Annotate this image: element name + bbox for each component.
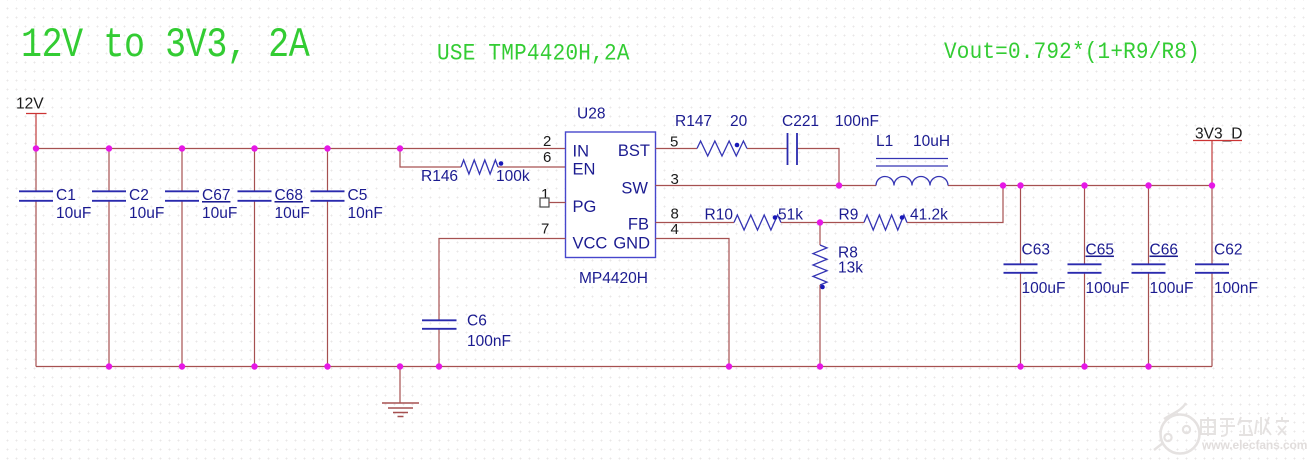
- wire C68 branch: [254, 149, 256, 367]
- svg-text:www.elecfans.com: www.elecfans.com: [1201, 438, 1307, 452]
- resistor R8: [813, 245, 863, 285]
- svg-text:8: 8: [671, 206, 679, 223]
- junction ground rail at GND pin: [726, 363, 732, 369]
- junction 12V rail at C1: [33, 145, 39, 151]
- svg-text:VCC: VCC: [573, 235, 608, 253]
- svg-text:SW: SW: [621, 180, 648, 198]
- note USE TMP4420H,2A: [437, 41, 630, 67]
- svg-text:R147: R147: [675, 113, 712, 130]
- junction 12V rail at EN branch: [397, 145, 403, 151]
- svg-text:USE TMP4420H,2A: USE TMP4420H,2A: [437, 41, 630, 67]
- wire C65 branch: [1084, 186, 1086, 367]
- capacitor C68: [238, 187, 310, 222]
- pin number 1: [541, 186, 549, 203]
- svg-text:MP4420H: MP4420H: [579, 270, 648, 287]
- note Vout formula: [944, 39, 1200, 65]
- junction 12V rail at C67: [179, 145, 185, 151]
- junction output rail at C63: [1017, 182, 1023, 188]
- wire C63 branch: [1020, 186, 1022, 367]
- resistor R9: [839, 207, 949, 231]
- svg-text:2: 2: [543, 133, 551, 150]
- svg-text:100nF: 100nF: [835, 113, 879, 130]
- IC U28 MP4420H: [566, 106, 656, 288]
- junction ground rail at C66: [1145, 363, 1151, 369]
- wire C62 branch: [1211, 186, 1213, 367]
- svg-text:R9: R9: [839, 207, 859, 224]
- resistor R10: [705, 207, 804, 231]
- svg-text:C63: C63: [1022, 242, 1050, 259]
- svg-text:7: 7: [541, 221, 549, 238]
- junction ground rail at C6: [436, 363, 442, 369]
- junction ground rail at C5: [324, 363, 330, 369]
- svg-text:R10: R10: [705, 207, 734, 224]
- capacitor C6: [422, 313, 511, 351]
- svg-text:R146: R146: [421, 168, 458, 185]
- resistor R147: [675, 113, 748, 156]
- pin number 5: [670, 134, 678, 151]
- svg-text:100uF: 100uF: [1022, 280, 1066, 297]
- wire VCC branch: [439, 239, 566, 367]
- junction output rail at 3V3_D: [1209, 182, 1215, 188]
- capacitor C5: [311, 187, 383, 222]
- pin number 2: [543, 133, 551, 150]
- svg-text:C65: C65: [1086, 242, 1114, 259]
- svg-text:C66: C66: [1150, 242, 1178, 259]
- svg-text:100nF: 100nF: [467, 333, 511, 350]
- svg-text:10uF: 10uF: [129, 205, 164, 222]
- junction SW at R9: [1000, 182, 1006, 188]
- svg-text:41.2k: 41.2k: [910, 207, 948, 224]
- capacitor C2: [92, 187, 164, 222]
- svg-text:C62: C62: [1214, 242, 1242, 259]
- wire C66 branch: [1148, 186, 1150, 367]
- svg-text:20: 20: [730, 113, 748, 130]
- junction ground rail at ground symbol: [397, 363, 403, 369]
- svg-text:Vout=0.792*(1+R9/R8): Vout=0.792*(1+R9/R8): [944, 39, 1200, 65]
- capacitor C66: [1132, 242, 1194, 298]
- svg-text:C5: C5: [348, 187, 368, 204]
- svg-text:100uF: 100uF: [1150, 280, 1194, 297]
- capacitor C65: [1068, 242, 1130, 298]
- pin number 6: [543, 149, 551, 166]
- junction ground rail at C2: [106, 363, 112, 369]
- wire input rail 12V: [36, 148, 566, 150]
- junction output rail at C65: [1081, 182, 1087, 188]
- svg-text:C68: C68: [275, 187, 303, 204]
- junction ground rail at C65: [1081, 363, 1087, 369]
- wire bottom ground rail: [36, 366, 1212, 368]
- solder dot R147: [735, 143, 740, 148]
- svg-text:L1: L1: [876, 133, 893, 150]
- junction FB divider node: [817, 219, 823, 225]
- ground symbol: [382, 367, 419, 417]
- wire C1 branch: [35, 149, 37, 367]
- wire C2 branch: [108, 149, 110, 367]
- svg-text:10uF: 10uF: [202, 205, 237, 222]
- svg-text:C6: C6: [467, 313, 487, 330]
- pin number 7: [541, 221, 549, 238]
- wire FB branch: [656, 186, 1004, 223]
- svg-text:IN: IN: [573, 143, 590, 161]
- svg-text:100k: 100k: [496, 168, 530, 185]
- svg-text:100uF: 100uF: [1086, 280, 1130, 297]
- solder dot R9: [900, 215, 905, 220]
- solder dot R146: [499, 161, 504, 166]
- capacitor C63: [1004, 242, 1066, 298]
- wire C67 branch: [181, 149, 183, 367]
- title text: [21, 21, 310, 69]
- port 3V3_D: [1193, 126, 1242, 186]
- wire R8 branch: [819, 223, 821, 367]
- junction 12V rail at C5: [324, 145, 330, 151]
- junction 12V rail at C68: [251, 145, 257, 151]
- svg-text:6: 6: [543, 149, 551, 166]
- svg-text:C1: C1: [56, 187, 76, 204]
- svg-text:51k: 51k: [778, 207, 803, 224]
- junction ground rail at R8: [817, 363, 823, 369]
- watermark hanzi: [1201, 417, 1289, 436]
- solder dot R8: [820, 285, 825, 290]
- capacitor C1: [19, 187, 91, 222]
- junction ground rail at C67: [179, 363, 185, 369]
- svg-text:GND: GND: [613, 235, 650, 253]
- capacitor C221: [782, 113, 879, 165]
- svg-text:10nF: 10nF: [348, 205, 383, 222]
- junction 12V rail at C2: [106, 145, 112, 151]
- wire C5 branch: [327, 149, 329, 367]
- svg-text:C2: C2: [129, 187, 149, 204]
- capacitor C62: [1195, 242, 1258, 298]
- svg-text:4: 4: [671, 221, 679, 238]
- svg-text:10uF: 10uF: [275, 205, 310, 222]
- junction ground rail at C68: [251, 363, 257, 369]
- svg-text:10uH: 10uH: [913, 133, 950, 150]
- svg-text:12V to 3V3, 2A: 12V to 3V3, 2A: [21, 21, 310, 69]
- svg-text:EN: EN: [573, 161, 596, 179]
- junction output rail at C66: [1145, 182, 1151, 188]
- inductor L1: [876, 133, 950, 186]
- svg-text:10uF: 10uF: [56, 205, 91, 222]
- wire EN branch: [400, 149, 566, 168]
- svg-text:BST: BST: [618, 142, 650, 160]
- no-connect square PG pin 1: [540, 198, 566, 207]
- wire GND pin branch: [656, 239, 730, 367]
- solder dot R10: [773, 215, 778, 220]
- svg-text:FB: FB: [628, 216, 649, 234]
- pin number 4: [671, 221, 679, 238]
- watermark url: [1201, 438, 1307, 452]
- svg-text:100nF: 100nF: [1214, 280, 1258, 297]
- wire SW output rail: [656, 185, 1213, 187]
- junction SW at C221: [836, 182, 842, 188]
- junction ground rail at C63: [1017, 363, 1023, 369]
- watermark logo: [1154, 403, 1200, 454]
- wire BST branch: [656, 149, 840, 186]
- svg-text:C221: C221: [782, 113, 819, 130]
- resistor R146: [421, 160, 530, 185]
- pin number 8: [671, 206, 679, 223]
- pin number 3: [671, 171, 679, 188]
- svg-text:12V: 12V: [16, 96, 44, 113]
- capacitor C67: [165, 187, 237, 222]
- svg-text:U28: U28: [577, 106, 605, 123]
- port 12V: [16, 96, 47, 149]
- svg-text:13k: 13k: [838, 260, 863, 277]
- svg-text:PG: PG: [573, 198, 597, 216]
- svg-text:C67: C67: [202, 187, 230, 204]
